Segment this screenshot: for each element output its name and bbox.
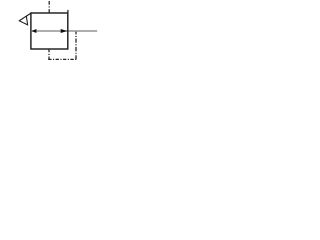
component body (valve box) — [31, 13, 68, 49]
enclosure stub above box (dash-dot) — [48, 1, 50, 13]
arrowhead left (filled) — [32, 29, 37, 33]
adjustability arrow shaft (diagonal from box top-left corner) — [19, 13, 31, 21]
wire (arrow shaft inside box continuing right out of box) — [32, 30, 97, 32]
enclosure bottom horizontal (dash-dot) — [48, 58, 76, 60]
lone dash above box top-right corner — [67, 10, 69, 13]
adjustability arrowhead (hollow triangle) — [19, 16, 27, 25]
arrowhead right (filled) — [61, 29, 68, 33]
enclosure right vertical (dash-dot) — [75, 32, 77, 60]
enclosure stub below box (dash-dot) — [48, 49, 50, 59]
